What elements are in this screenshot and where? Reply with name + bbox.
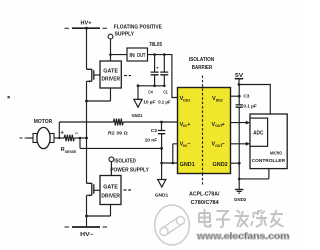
wire Q2 gate to gate driver 2 xyxy=(94,189,100,191)
svg-text:−: − xyxy=(187,142,190,148)
isolated power supply terminal xyxy=(109,157,149,173)
transistor Q1 (upper MOSFET) xyxy=(87,69,94,83)
wire motor to Rsense xyxy=(54,137,64,139)
node HV- label xyxy=(80,232,94,238)
wire bus Q2 source to HV- xyxy=(86,195,88,227)
pin VIN+ xyxy=(180,122,191,128)
wire microcontroller ground return xyxy=(238,163,269,189)
svg-text:GND1: GND1 xyxy=(132,113,143,119)
HV- power rail bar xyxy=(65,226,108,228)
pin GND1 xyxy=(180,162,195,168)
wire VDD2 to 5V rail xyxy=(231,95,241,98)
wire bus phase node down to Q2 xyxy=(86,138,88,183)
wire continuation dashes right of gate driver 1 xyxy=(124,75,131,77)
watermark url www.elecfans.com xyxy=(196,231,290,241)
pin GND2 xyxy=(213,162,228,168)
svg-text:IN: IN xyxy=(129,53,134,59)
svg-text:C4: C4 xyxy=(148,89,153,95)
isolation barrier dashed line xyxy=(202,76,204,185)
svg-text:10 nF: 10 nF xyxy=(145,137,158,143)
svg-text:GND1: GND1 xyxy=(180,162,195,168)
capacitor C2 xyxy=(145,121,166,150)
svg-text:C3: C3 xyxy=(243,93,249,99)
svg-text:OUT: OUT xyxy=(137,53,146,59)
svg-text:−: − xyxy=(222,142,225,148)
svg-text:CONTROLLER: CONTROLLER xyxy=(252,158,286,164)
svg-text:C780/C784: C780/C784 xyxy=(191,200,219,206)
svg-text:+: + xyxy=(60,131,64,137)
wire bus Q1 source down to phase node xyxy=(86,81,88,138)
watermark logo circle xyxy=(155,205,190,245)
pin VOUT+ xyxy=(212,122,225,128)
svg-text:0.1 µF: 0.1 µF xyxy=(243,104,256,110)
svg-text:GATE: GATE xyxy=(103,69,118,75)
wire floating supply down to IN and gate driver 1 xyxy=(109,39,127,61)
capacitor C4 xyxy=(143,55,159,106)
transistor Q2 (lower MOSFET) xyxy=(87,183,94,197)
floating positive supply terminal xyxy=(108,24,162,39)
svg-text:HV−: HV− xyxy=(80,232,94,238)
svg-text:DD1: DD1 xyxy=(183,98,190,102)
pin VIN- xyxy=(180,142,191,148)
motor M1 xyxy=(20,119,55,149)
svg-text:SENSE: SENSE xyxy=(65,150,77,154)
artifact dot left edge xyxy=(8,96,10,98)
wire VIN+ sense line xyxy=(59,122,177,138)
svg-text:GND2: GND2 xyxy=(213,162,228,168)
watermark chinese characters xyxy=(199,209,284,227)
op-amp U1 isolation amplifier ACPL-C78A xyxy=(178,88,231,174)
resistor R2 39ohm xyxy=(108,119,128,137)
wire GND1 rail to IC xyxy=(160,144,177,180)
svg-text:C2: C2 xyxy=(151,128,158,134)
wire HV+ bus down to Q1 drain xyxy=(86,28,88,69)
regulator 78L05 xyxy=(127,42,162,61)
wire VOUT- to ADC xyxy=(231,142,251,146)
wire Rsense to phase node xyxy=(74,137,88,140)
svg-text:10 µF: 10 µF xyxy=(143,100,155,106)
svg-text:SUPPLY: SUPPLY xyxy=(115,31,135,37)
svg-text:MICRO: MICRO xyxy=(270,151,282,157)
svg-text:ADC: ADC xyxy=(253,131,263,137)
svg-text:DD2: DD2 xyxy=(216,98,223,102)
svg-text:DRIVER: DRIVER xyxy=(101,194,120,200)
wire GND2 pin to ground rail xyxy=(231,162,241,165)
wire gate driver 1 bottom return to bus xyxy=(85,88,110,102)
pin VOUT- xyxy=(212,142,225,148)
ground GND2 (earth symbol) xyxy=(234,190,247,204)
capacitor C1 xyxy=(158,55,170,106)
svg-text:0.1 µF: 0.1 µF xyxy=(158,100,170,106)
wire 5V rail to microcontroller xyxy=(239,85,270,115)
svg-text:FLOATING POSITIVE: FLOATING POSITIVE xyxy=(114,24,163,30)
wire gate driver 2 bottom return to bus xyxy=(85,205,110,218)
svg-text:GND2: GND2 xyxy=(234,197,247,203)
capacitor C3 xyxy=(236,85,257,164)
gate driver U3 (lower) xyxy=(100,176,121,205)
svg-text:C1: C1 xyxy=(163,89,168,95)
svg-text:GND1: GND1 xyxy=(155,193,169,199)
pin VDD2 xyxy=(212,96,223,102)
svg-text:MOTOR: MOTOR xyxy=(34,119,53,125)
svg-text:+: + xyxy=(187,122,190,128)
svg-text:+: + xyxy=(156,65,159,70)
wire isolated supply to gate driver 2 xyxy=(110,162,112,176)
svg-text:GATE: GATE xyxy=(103,184,118,190)
HV+ power rail bar xyxy=(65,27,108,30)
svg-text:ISOLATED: ISOLATED xyxy=(114,158,136,164)
resistor Rsense xyxy=(60,131,78,154)
gate driver U2 (upper) xyxy=(100,61,121,88)
wire continuation dashes right of gate driver 2 xyxy=(124,189,132,191)
isolation barrier label xyxy=(189,57,215,71)
wire VOUT+ to ADC xyxy=(231,121,251,125)
ADC block inside microcontroller xyxy=(250,118,268,146)
svg-text:www.elecfans.com: www.elecfans.com xyxy=(196,231,290,241)
svg-text:−: − xyxy=(75,131,79,137)
svg-text:78L05: 78L05 xyxy=(149,42,162,48)
svg-text:R2 39 Ω: R2 39 Ω xyxy=(108,131,128,137)
svg-text:ACPL-C78A/: ACPL-C78A/ xyxy=(189,191,220,197)
part label ACPL-C78A/C780/C784 xyxy=(189,191,220,206)
micro controller U4 xyxy=(250,114,287,169)
ground GND1 (triangle at C4/C1) xyxy=(132,99,143,119)
node 5V supply xyxy=(235,73,244,86)
ground GND1 (triangle at IC) xyxy=(155,180,169,199)
wire capacitor ground rail xyxy=(137,84,166,99)
pin VDD1 xyxy=(180,96,191,102)
svg-text:+: + xyxy=(222,122,225,128)
svg-text:DRIVER: DRIVER xyxy=(102,77,121,83)
svg-text:POWER SUPPLY: POWER SUPPLY xyxy=(110,167,149,173)
wire Q1 gate to gate driver 1 xyxy=(94,74,100,76)
svg-text:ISOLATION: ISOLATION xyxy=(189,57,215,63)
wire 78L05 OUT to VDD1 xyxy=(148,53,178,97)
wire VIN- sense line xyxy=(80,138,162,148)
svg-text:HV+: HV+ xyxy=(81,21,93,27)
node HV+ label xyxy=(81,21,93,27)
svg-text:BARRIER: BARRIER xyxy=(192,65,213,71)
